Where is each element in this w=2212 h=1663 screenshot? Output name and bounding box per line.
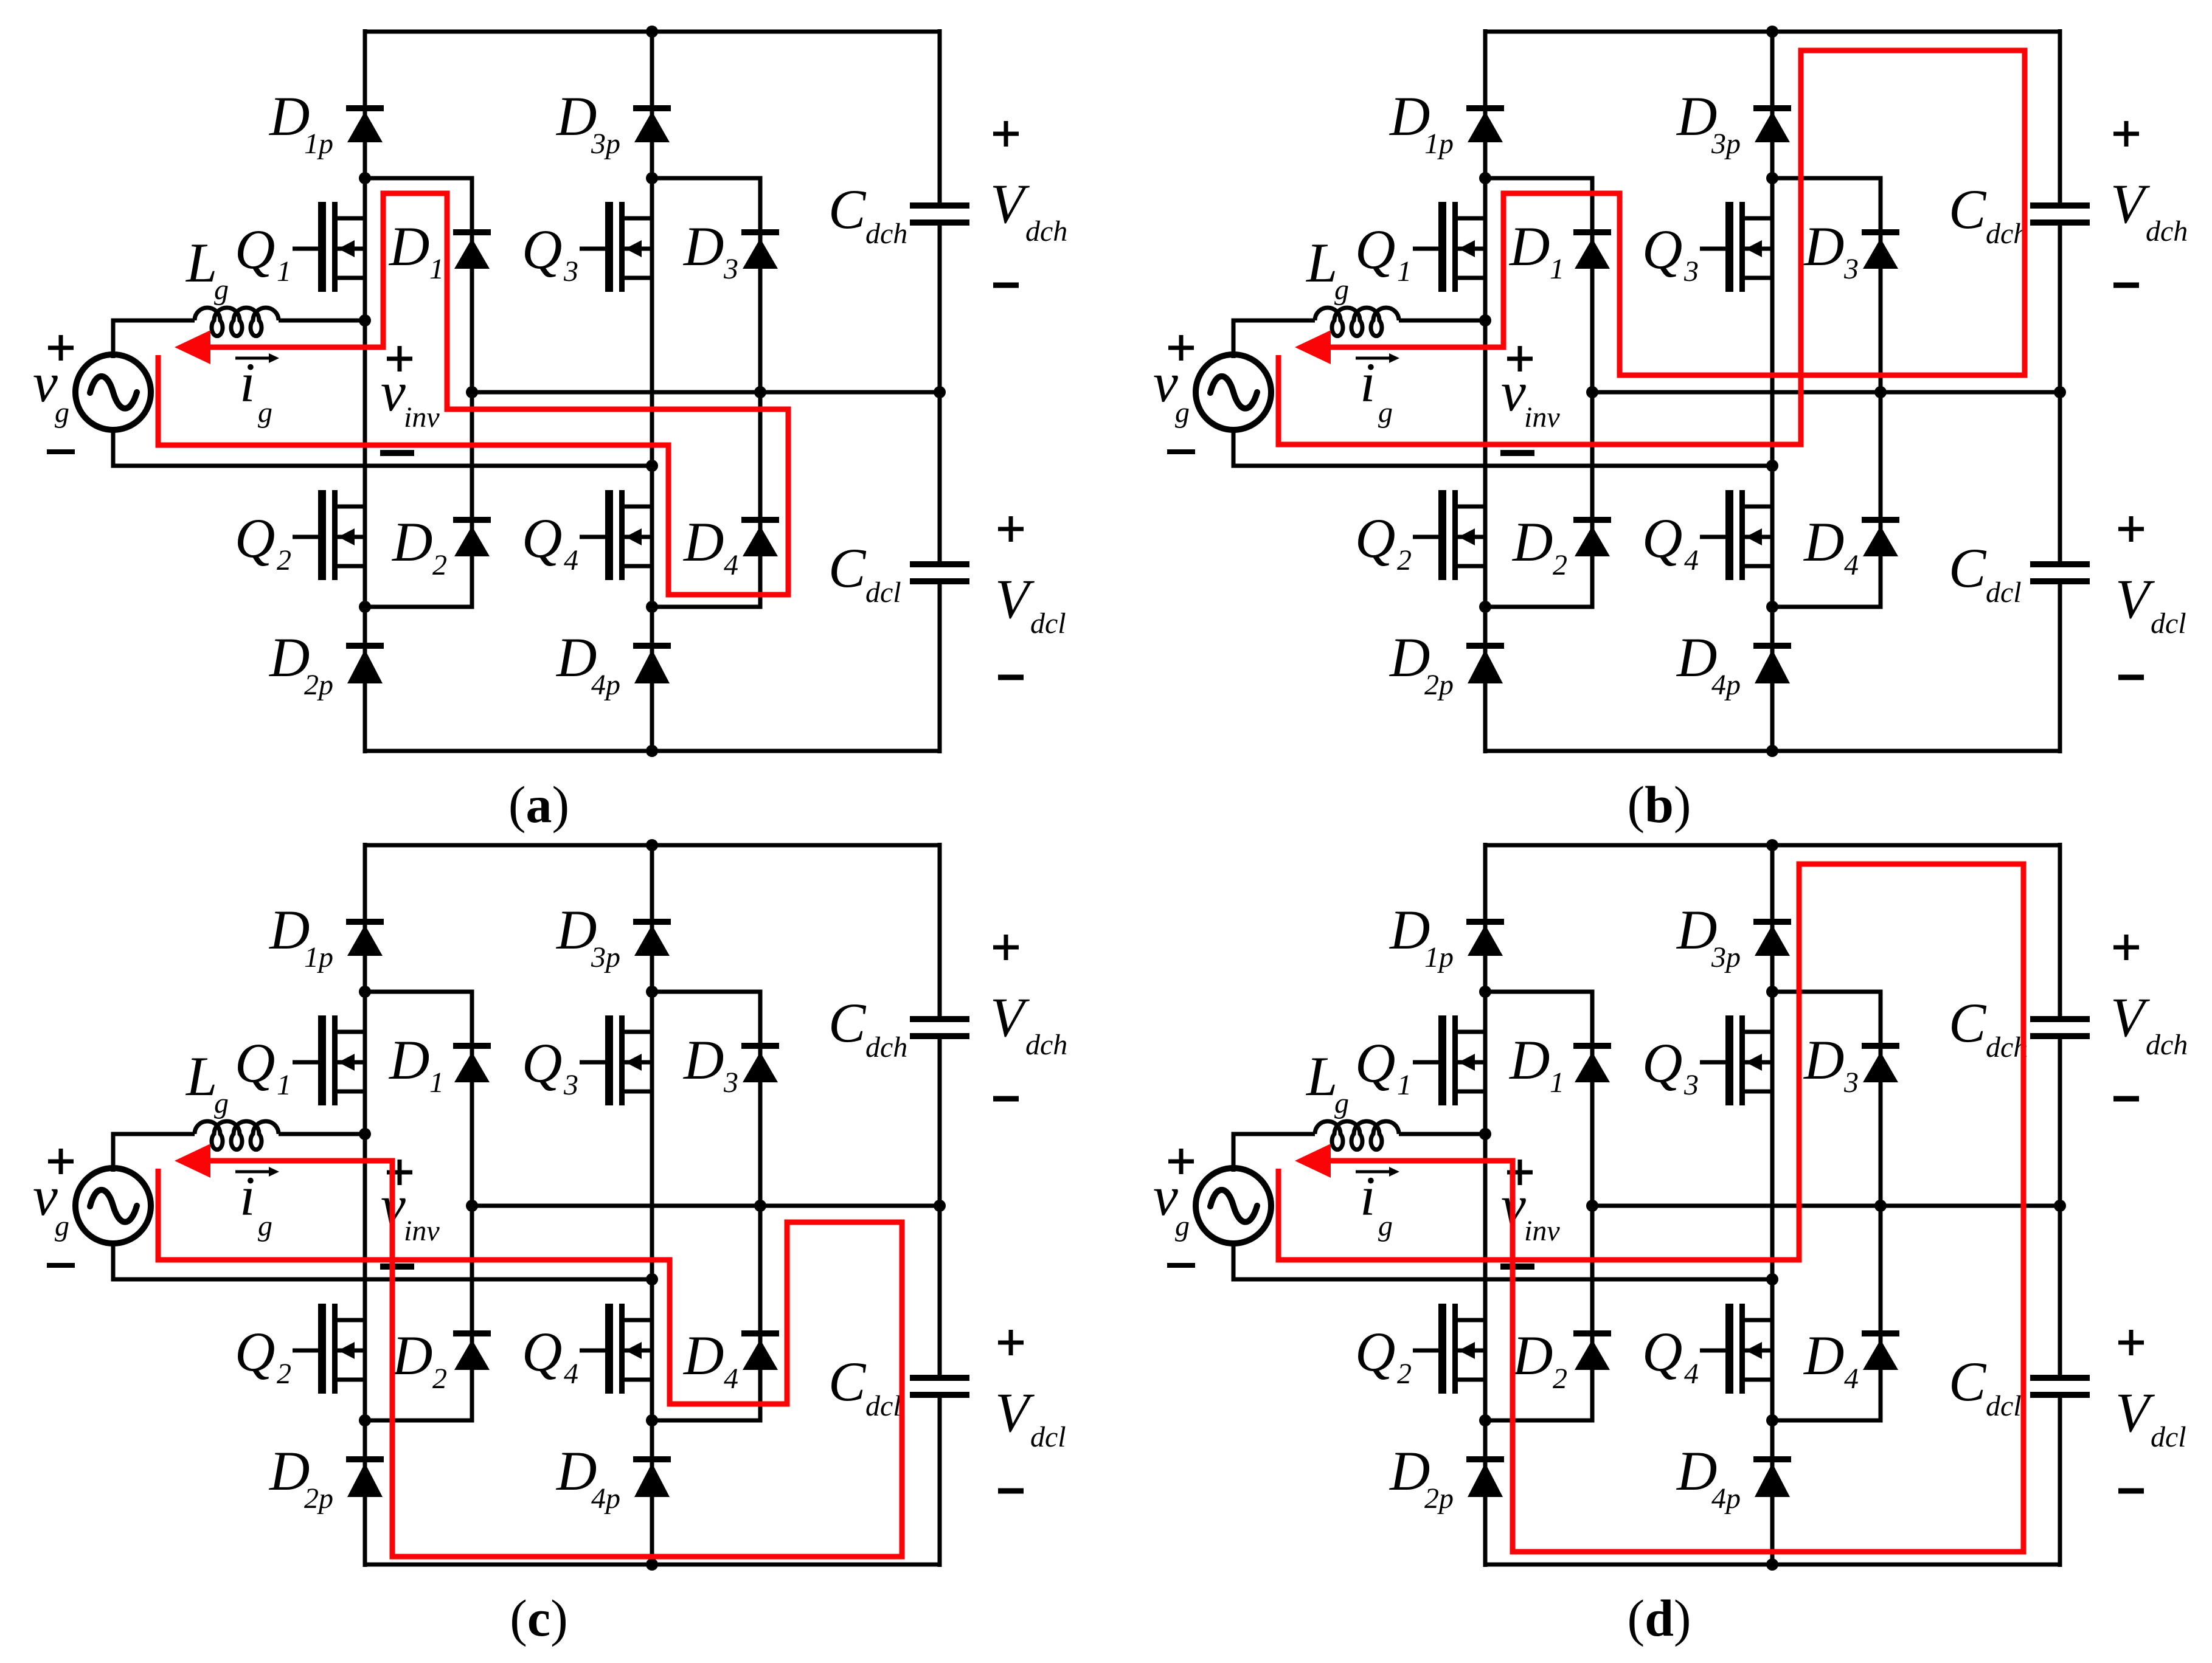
junction: bottom rail / leg B node (a): [646, 745, 658, 757]
wire: DC-link midpoint rail (b): [1592, 390, 2060, 395]
svg-text:V: V: [990, 173, 1030, 235]
svg-text:2: 2: [1397, 1358, 1412, 1390]
label D4 (d): [1803, 1324, 1859, 1395]
svg-text:2p: 2p: [304, 1482, 333, 1515]
svg-text:D: D: [682, 215, 724, 277]
MOSFET Q3 (a): [580, 202, 652, 292]
label D2 (d): [1511, 1324, 1567, 1395]
red current path (b): [1278, 50, 2025, 444]
svg-text:D: D: [391, 511, 432, 573]
label D1 (b): [1508, 215, 1564, 285]
inductor Lg (b): [1315, 308, 1485, 336]
junction: v_inv node on leg B (d): [1766, 1273, 1778, 1285]
label Q1 (c): [235, 1032, 291, 1101]
label D1p (c): [268, 899, 333, 973]
MOSFET Q2 (c): [293, 1304, 365, 1394]
diode D2 (b): [1573, 520, 1611, 556]
svg-text:v: v: [33, 1165, 58, 1227]
junction: node below Q2 (c): [359, 1414, 371, 1426]
svg-text:inv: inv: [1524, 401, 1560, 434]
label vg (c): [33, 1165, 69, 1242]
MOSFET Q2 (d): [1413, 1304, 1485, 1394]
svg-text:D: D: [1511, 1324, 1553, 1386]
svg-text:Q: Q: [1642, 218, 1682, 280]
label Cdch (b): [1949, 178, 2028, 250]
svg-text:dcl: dcl: [1986, 576, 2022, 609]
svg-text:g: g: [55, 396, 69, 429]
label Q2 (c): [235, 1321, 291, 1390]
svg-text:dcl: dcl: [865, 576, 901, 609]
label D3p (d): [1676, 899, 1741, 973]
svg-text:D: D: [682, 1029, 724, 1091]
diode D3p (c): [633, 922, 671, 956]
svg-text:2p: 2p: [304, 669, 333, 701]
label D2p (c): [268, 1440, 333, 1515]
polarity + of v_inv (d): [1507, 1160, 1533, 1185]
polarity - of Vdch (c): [993, 1096, 1019, 1102]
svg-text:3: 3: [563, 255, 578, 288]
wire: bottom DC rail (d): [1485, 1563, 2060, 1567]
svg-text:3p: 3p: [1711, 941, 1741, 973]
wire: grid return from source to leg B (a): [113, 427, 652, 466]
svg-text:i: i: [1360, 1165, 1376, 1227]
label D4 (a): [682, 511, 738, 581]
junction: midpoint rail / D1-D2 branch (c): [466, 1200, 478, 1212]
wire: right DC-link leg lower segment (b): [2058, 584, 2062, 753]
svg-text:D: D: [1803, 215, 1844, 277]
junction: node above Q3 (d): [1766, 986, 1778, 998]
label D2 (b): [1511, 511, 1567, 581]
svg-text:C: C: [828, 178, 867, 240]
svg-text:1p: 1p: [304, 941, 333, 973]
MOSFET Q1 (c): [293, 1015, 365, 1105]
label Q3 (a): [522, 218, 578, 288]
svg-text:C: C: [828, 537, 867, 599]
svg-text:4: 4: [1844, 1363, 1859, 1395]
diode D2p (a): [346, 646, 384, 683]
wire: DC-link midpoint rail (d): [1592, 1204, 2060, 1208]
capacitor Cdcl (c): [910, 1378, 969, 1395]
diode D4 (d): [1862, 1333, 1899, 1370]
diode D3 (c): [741, 1046, 779, 1082]
label D2p (b): [1389, 626, 1454, 701]
svg-text:D: D: [682, 511, 724, 573]
svg-text:2p: 2p: [1424, 669, 1454, 701]
label Vdcl (a): [995, 568, 1066, 640]
wire: right DC-link leg upper segment (b): [2058, 29, 2062, 203]
svg-text:Q: Q: [522, 1321, 562, 1383]
svg-text:3: 3: [1683, 255, 1699, 288]
wire: source to inductor (d): [1233, 1134, 1315, 1172]
wire: bottom DC rail (b): [1485, 749, 2060, 753]
label Cdch (a): [828, 178, 907, 250]
svg-text:2: 2: [432, 549, 447, 581]
MOSFET Q2 (b): [1413, 490, 1485, 580]
svg-text:dch: dch: [2146, 1029, 2188, 1061]
label Cdcl (c): [828, 1350, 901, 1422]
svg-text:inv: inv: [404, 401, 440, 434]
polarity - of Vdch (d): [2113, 1096, 2139, 1102]
junction: node above Q1 (c): [359, 986, 371, 998]
svg-text:Q: Q: [1642, 1032, 1682, 1094]
junction: v_inv node on leg B (b): [1766, 460, 1778, 472]
wire: D3/D4 parallel branch (a): [652, 178, 760, 607]
junction: v_inv node on leg B (a): [646, 460, 658, 472]
junction: midpoint rail / D3-D4 branch (a): [754, 386, 766, 398]
junction: midpoint rail / D1-D2 branch (b): [1586, 386, 1598, 398]
junction: node below Q2 (b): [1479, 601, 1491, 613]
diode D4p (b): [1753, 646, 1791, 683]
wire: source to inductor (c): [113, 1134, 195, 1172]
polarity + of Vdcl (b): [2118, 516, 2144, 542]
label Q1 (d): [1355, 1032, 1412, 1101]
wire: D1/D2 parallel branch (a): [365, 178, 472, 607]
svg-text:g: g: [258, 396, 272, 429]
svg-text:1p: 1p: [1424, 128, 1454, 160]
svg-text:4p: 4p: [591, 1482, 620, 1515]
MOSFET Q4 (a): [580, 490, 652, 580]
polarity - of vg (b): [1167, 449, 1195, 454]
junction: node above Q1 (b): [1479, 172, 1491, 184]
svg-text:4: 4: [724, 549, 738, 581]
svg-text:g: g: [258, 1210, 272, 1242]
svg-text:1p: 1p: [304, 128, 333, 160]
MOSFET Q3 (d): [1700, 1015, 1772, 1105]
diode D4p (d): [1753, 1459, 1791, 1497]
junction: midpoint rail / DC-link leg (b): [2054, 386, 2066, 398]
inductor Lg (d): [1315, 1121, 1485, 1150]
junction: midpoint rail / D1-D2 branch (d): [1586, 1200, 1598, 1212]
wire: D3/D4 parallel branch (d): [1772, 992, 1881, 1420]
svg-text:3: 3: [1843, 253, 1859, 285]
label Q2 (b): [1355, 507, 1412, 576]
svg-text:v: v: [33, 351, 58, 413]
svg-text:1: 1: [429, 1067, 444, 1099]
junction: midpoint rail / D3-D4 branch (b): [1874, 386, 1887, 398]
svg-text:2: 2: [1397, 544, 1412, 576]
junction: node above Q1 (a): [359, 172, 371, 184]
diode D2p (d): [1466, 1459, 1504, 1497]
capacitor Cdch (c): [910, 1019, 969, 1036]
label Vdcl (b): [2115, 568, 2186, 640]
caption (a): [508, 775, 569, 834]
label vg (d): [1153, 1165, 1190, 1242]
svg-text:i: i: [1360, 351, 1376, 413]
polarity - of Vdch (b): [2113, 283, 2139, 288]
svg-text:1: 1: [429, 253, 444, 285]
wire: D1/D2 parallel branch (d): [1485, 992, 1592, 1420]
capacitor Cdcl (d): [2030, 1378, 2090, 1395]
junction: bottom rail / leg B node (c): [646, 1558, 658, 1571]
junction: node above Q1 (d): [1479, 986, 1491, 998]
polarity + of vg (b): [1168, 335, 1194, 361]
wire: right DC-link leg middle segment (d): [2058, 1039, 2062, 1375]
svg-text:g: g: [1334, 274, 1349, 306]
polarity - of v_inv (a): [380, 450, 414, 456]
capacitor Cdch (a): [910, 206, 969, 223]
svg-text:3: 3: [1683, 1069, 1699, 1101]
wire: phase leg B vertical (a): [650, 29, 654, 753]
junction: bottom rail / leg B node (b): [1766, 745, 1778, 757]
label Q2 (d): [1355, 1321, 1412, 1390]
svg-text:4: 4: [1844, 549, 1859, 581]
polarity + of v_inv (b): [1507, 346, 1533, 372]
junction: midpoint rail / D3-D4 branch (d): [1874, 1200, 1887, 1212]
label Cdcl (a): [828, 537, 901, 609]
svg-text:2: 2: [432, 1363, 447, 1395]
junction: node below Q4 (b): [1766, 601, 1778, 613]
MOSFET Q1 (a): [293, 202, 365, 292]
label D2p (d): [1389, 1440, 1454, 1515]
svg-text:dcl: dcl: [1986, 1390, 2022, 1422]
AC source vg (d): [1196, 1168, 1271, 1243]
label D3 (d): [1803, 1029, 1859, 1099]
wire: right DC-link leg upper segment (d): [2058, 843, 2062, 1017]
current ig reference arrow (d): [1356, 1167, 1399, 1177]
label Lg (d): [1305, 1045, 1349, 1119]
svg-text:Q: Q: [1355, 1032, 1395, 1094]
svg-text:1: 1: [1397, 1069, 1412, 1101]
polarity - of Vdch (a): [993, 283, 1019, 288]
AC source vg (a): [75, 354, 151, 430]
svg-text:3: 3: [563, 1069, 578, 1101]
svg-text:C: C: [1949, 1350, 1987, 1412]
junction: midpoint rail / D1-D2 branch (a): [466, 386, 478, 398]
svg-text:inv: inv: [1524, 1215, 1560, 1247]
wire: grid return from source to leg B (b): [1233, 427, 1772, 466]
svg-text:1: 1: [1550, 1067, 1564, 1099]
wire: phase leg A vertical (a): [363, 29, 367, 753]
label ig (c): [240, 1165, 272, 1242]
capacitor Cdch (b): [2030, 206, 2090, 223]
wire: grid return from source to leg B (c): [113, 1241, 652, 1279]
junction: node below Q2 (d): [1479, 1414, 1491, 1426]
svg-text:(b): (b): [1627, 775, 1691, 834]
polarity - of v_inv (c): [380, 1264, 414, 1270]
inductor Lg (a): [195, 308, 365, 336]
svg-text:Q: Q: [522, 507, 562, 569]
label ig (a): [240, 351, 272, 429]
diode D3p (b): [1753, 108, 1791, 142]
MOSFET Q4 (c): [580, 1304, 652, 1394]
polarity + of vg (d): [1168, 1149, 1194, 1174]
MOSFET Q1 (d): [1413, 1015, 1485, 1105]
svg-text:C: C: [828, 1350, 867, 1412]
wire: D3/D4 parallel branch (c): [652, 992, 760, 1420]
label Vdcl (d): [2115, 1381, 2186, 1453]
current ig reference arrow (c): [235, 1167, 279, 1177]
svg-text:L: L: [1305, 1045, 1337, 1107]
svg-text:g: g: [1334, 1087, 1349, 1119]
wire: phase leg B vertical (d): [1770, 843, 1775, 1567]
wire: source to inductor (b): [1233, 320, 1315, 358]
svg-text:L: L: [1305, 232, 1337, 294]
svg-text:4p: 4p: [591, 669, 620, 701]
junction: inverter output node / inductor (b): [1479, 314, 1491, 327]
wire: right DC-link leg middle segment (a): [938, 225, 942, 562]
label D1 (d): [1508, 1029, 1564, 1099]
diode D1 (c): [453, 1046, 491, 1082]
svg-text:3p: 3p: [1711, 128, 1741, 160]
svg-text:V: V: [995, 568, 1035, 630]
svg-text:D: D: [1508, 1029, 1550, 1091]
svg-text:4: 4: [724, 1363, 738, 1395]
svg-text:i: i: [240, 351, 255, 413]
label Q1 (a): [235, 218, 291, 288]
capacitor Cdcl (b): [2030, 564, 2090, 581]
svg-text:dch: dch: [1025, 215, 1067, 247]
MOSFET Q3 (c): [580, 1015, 652, 1105]
label Q4 (a): [522, 507, 578, 576]
label D4 (c): [682, 1324, 738, 1395]
polarity + of vg (a): [48, 335, 74, 361]
svg-text:v: v: [1153, 1165, 1178, 1227]
wire: right DC-link leg upper segment (a): [938, 29, 942, 203]
diode D4 (c): [741, 1333, 779, 1370]
label Vdcl (c): [995, 1381, 1066, 1453]
svg-text:V: V: [2110, 986, 2151, 1048]
label ig (b): [1360, 351, 1393, 429]
junction: top rail / leg B node (a): [646, 26, 658, 38]
diode D3p (a): [633, 108, 671, 142]
svg-text:1: 1: [1550, 253, 1564, 285]
red current direction arrowhead (a): [175, 330, 210, 364]
svg-text:Q: Q: [235, 507, 275, 569]
diode D4p (a): [633, 646, 671, 683]
junction: inverter output node / inductor (c): [359, 1128, 371, 1140]
label Q4 (c): [522, 1321, 578, 1390]
diode D2p (b): [1466, 646, 1504, 683]
svg-text:3: 3: [1843, 1067, 1859, 1099]
junction: node above Q3 (b): [1766, 172, 1778, 184]
polarity - of v_inv (b): [1500, 450, 1534, 456]
svg-text:g: g: [1175, 1210, 1190, 1242]
polarity + of vg (c): [48, 1149, 74, 1174]
svg-text:V: V: [2110, 173, 2151, 235]
wire: phase leg B vertical (c): [650, 843, 654, 1567]
polarity - of vg (c): [47, 1263, 75, 1268]
label Q3 (c): [522, 1032, 578, 1101]
label Q1 (b): [1355, 218, 1412, 288]
red current direction arrowhead (c): [175, 1144, 210, 1178]
svg-text:D: D: [1803, 1029, 1844, 1091]
label D2 (a): [391, 511, 447, 581]
label Q3 (d): [1642, 1032, 1699, 1101]
label D1p (d): [1389, 899, 1454, 973]
junction: inverter output node / inductor (a): [359, 314, 371, 327]
capacitor Cdcl (a): [910, 564, 969, 581]
diode D2 (a): [453, 520, 491, 556]
svg-text:3p: 3p: [591, 941, 620, 973]
label D2 (c): [391, 1324, 447, 1395]
red current path (d): [1278, 864, 2023, 1552]
svg-text:D: D: [1803, 1324, 1844, 1386]
svg-text:Q: Q: [235, 1032, 275, 1094]
diode D4 (a): [741, 520, 779, 556]
caption (b): [1627, 775, 1691, 834]
polarity + of v_inv (c): [387, 1160, 412, 1185]
svg-text:g: g: [214, 274, 229, 306]
label D3p (b): [1676, 85, 1741, 160]
current ig reference arrow (b): [1356, 353, 1399, 363]
wire: bottom DC rail (a): [365, 749, 940, 753]
junction: midpoint rail / DC-link leg (c): [934, 1200, 946, 1212]
svg-text:2: 2: [277, 544, 291, 576]
svg-text:4: 4: [564, 544, 578, 576]
label Q2 (a): [235, 507, 291, 576]
svg-text:dcl: dcl: [1030, 607, 1066, 640]
MOSFET Q2 (a): [293, 490, 365, 580]
diode D3p (d): [1753, 922, 1791, 956]
junction: node below Q4 (c): [646, 1414, 658, 1426]
MOSFET Q4 (b): [1700, 490, 1772, 580]
junction: top rail / leg B node (d): [1766, 839, 1778, 851]
polarity + of Vdcl (d): [2118, 1330, 2144, 1355]
wire: D1/D2 parallel branch (b): [1485, 178, 1592, 607]
label D3p (c): [555, 899, 620, 973]
svg-text:inv: inv: [404, 1215, 440, 1247]
diode D1p (c): [346, 922, 384, 956]
polarity + of Vdch (c): [993, 935, 1019, 960]
capacitor Cdch (d): [2030, 1019, 2090, 1036]
svg-text:C: C: [828, 992, 867, 1054]
label Cdcl (b): [1949, 537, 2022, 609]
polarity + of Vdch (b): [2113, 121, 2139, 147]
label D3 (c): [682, 1029, 738, 1099]
diode D4 (b): [1862, 520, 1899, 556]
label Lg (b): [1305, 232, 1349, 306]
AC source vg (b): [1196, 354, 1271, 430]
svg-text:D: D: [682, 1324, 724, 1386]
label v_inv (d): [1501, 1174, 1560, 1247]
polarity - of Vdcl (c): [998, 1488, 1024, 1494]
label D4p (c): [555, 1440, 620, 1515]
junction: top rail / leg B node (b): [1766, 26, 1778, 38]
label Lg (c): [185, 1045, 229, 1119]
svg-text:1: 1: [277, 1069, 291, 1101]
polarity + of v_inv (a): [387, 346, 412, 372]
wire: DC-link midpoint rail (c): [472, 1204, 940, 1208]
svg-text:(a): (a): [508, 775, 569, 834]
svg-text:4p: 4p: [1711, 1482, 1741, 1515]
junction: node below Q4 (a): [646, 601, 658, 613]
label Vdch (b): [2110, 173, 2188, 247]
svg-text:Q: Q: [1642, 507, 1682, 569]
wire: bottom DC rail (c): [365, 1563, 940, 1567]
wire: phase leg A vertical (b): [1483, 29, 1488, 753]
label Cdch (d): [1949, 992, 2028, 1063]
polarity + of Vdcl (a): [998, 516, 1024, 542]
svg-text:dcl: dcl: [865, 1390, 901, 1422]
svg-text:V: V: [2115, 568, 2155, 630]
svg-text:V: V: [2115, 1381, 2155, 1443]
diode D3 (b): [1862, 232, 1899, 269]
wire: DC-link midpoint rail (a): [472, 390, 940, 395]
svg-text:dch: dch: [2146, 215, 2188, 247]
svg-text:2: 2: [1553, 1363, 1567, 1395]
svg-text:g: g: [55, 1210, 69, 1242]
label Q4 (d): [1642, 1321, 1699, 1390]
wire: top DC rail (a): [365, 30, 940, 34]
svg-text:V: V: [990, 986, 1030, 1048]
svg-text:C: C: [1949, 537, 1987, 599]
current ig reference arrow (a): [235, 353, 279, 363]
label D1 (a): [388, 215, 444, 285]
label D1p (b): [1389, 85, 1454, 160]
wire: right DC-link leg middle segment (b): [2058, 225, 2062, 562]
red current direction arrowhead (d): [1295, 1144, 1331, 1178]
svg-text:C: C: [1949, 992, 1987, 1054]
